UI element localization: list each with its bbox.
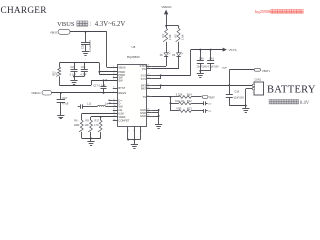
wire VBUS to IC xyxy=(70,31,118,68)
svg-text:21: 21 xyxy=(147,112,149,114)
ground IC right xyxy=(155,125,162,129)
ground resistors xyxy=(87,142,94,146)
net label D- xyxy=(109,103,113,105)
svg-text:L11: L11 xyxy=(87,101,92,105)
svg-text:REGN: REGN xyxy=(118,91,126,95)
svg-text:22: 22 xyxy=(147,109,149,111)
wire PMID rail xyxy=(59,63,117,75)
svg-text:1.0K: 1.0K xyxy=(168,34,172,40)
svg-text:19: 19 xyxy=(147,78,149,80)
svg-text:TBAT: TBAT xyxy=(209,96,216,99)
svg-text:15: 15 xyxy=(147,95,149,97)
svg-text:U8: U8 xyxy=(132,45,136,49)
wire BAT join xyxy=(151,84,161,88)
net label D+ xyxy=(108,100,112,102)
note VBUS range 4.3V-6.2V xyxy=(57,21,125,28)
svg-text:4.3V~6.2V: 4.3V~6.2V xyxy=(95,21,126,28)
svg-text:C40: C40 xyxy=(199,56,204,60)
svg-text:SW: SW xyxy=(118,78,123,82)
capacitor C20 xyxy=(70,63,78,77)
svg-text:C21: C21 xyxy=(81,65,86,69)
svg-text:VBUS: VBUS xyxy=(50,31,57,35)
wire GND pins xyxy=(151,109,159,124)
svg-text::: : xyxy=(90,22,92,28)
power VSYS arrow xyxy=(223,48,237,52)
wire REGN xyxy=(52,92,118,94)
svg-text:R9: R9 xyxy=(86,119,90,123)
svg-text:PG: PG xyxy=(142,67,146,71)
capacitor C40 xyxy=(197,49,208,71)
wire TS xyxy=(151,96,171,111)
ground battery xyxy=(242,109,249,113)
title text CHARGER xyxy=(1,6,48,16)
svg-text:VBUS: VBUS xyxy=(57,21,75,28)
svg-text:10uF/16V: 10uF/16V xyxy=(233,96,244,99)
svg-text:10K-1%: 10K-1% xyxy=(175,99,185,103)
wire SYS caps join xyxy=(199,70,210,73)
svg-text:C31: C31 xyxy=(208,111,211,113)
svg-text:10: 10 xyxy=(113,105,115,107)
svg-text:10uF/16V: 10uF/16V xyxy=(197,65,208,68)
wire cap join xyxy=(73,76,84,78)
svg-text:C19: C19 xyxy=(80,44,84,49)
resistor R4 xyxy=(161,28,172,42)
capacitor C15 xyxy=(67,104,83,109)
svg-text:4: 4 xyxy=(113,76,114,78)
svg-text:R13: R13 xyxy=(187,107,192,111)
svg-text:D5: D5 xyxy=(160,55,164,57)
capacitor C31 xyxy=(204,109,212,113)
svg-text:9: 9 xyxy=(113,102,114,104)
connector CON1 xyxy=(252,79,263,95)
svg-text:C41: C41 xyxy=(209,56,214,60)
svg-text:CHARGER: CHARGER xyxy=(1,6,48,16)
svg-text:SW: SW xyxy=(118,105,123,109)
capacitor C19 xyxy=(80,32,92,52)
svg-text:1: 1 xyxy=(113,66,114,68)
svg-text:R12: R12 xyxy=(187,99,192,103)
svg-text:5.23K: 5.23K xyxy=(176,93,183,97)
svg-text:CONFET: CONFET xyxy=(118,119,129,123)
power VREGN xyxy=(162,5,172,26)
wire PMID loop bottom xyxy=(59,79,117,85)
svg-text:2R2: 2R2 xyxy=(52,71,56,76)
svg-text:3: 3 xyxy=(113,73,114,75)
svg-text:BATTERY: BATTERY xyxy=(267,84,316,95)
svg-text:5: 5 xyxy=(113,79,114,81)
wire VREF xyxy=(91,116,118,118)
svg-text:24: 24 xyxy=(147,65,149,67)
svg-text:VTR: VTR xyxy=(176,107,181,111)
port VBUS xyxy=(50,29,70,34)
svg-text:C20: C20 xyxy=(70,65,75,69)
ground SYS caps xyxy=(197,74,204,78)
capacitor C30 xyxy=(204,101,212,105)
svg-text:R6: R6 xyxy=(74,119,78,123)
svg-text:23: 23 xyxy=(147,68,149,70)
svg-text:R5: R5 xyxy=(173,34,177,38)
svg-text:R17: R17 xyxy=(95,119,100,123)
wire resistor bottoms xyxy=(82,137,101,141)
svg-text:4.7uF/25V: 4.7uF/25V xyxy=(88,40,92,52)
wire SYS join xyxy=(151,74,161,79)
wire VREGN rail xyxy=(165,25,178,28)
capacitor C17 xyxy=(93,79,106,94)
svg-text:SYS: SYS xyxy=(141,73,147,77)
ground C16 xyxy=(57,116,64,119)
svg-text:R14: R14 xyxy=(187,93,192,97)
wire STAT xyxy=(151,56,166,66)
wire CON pin2 xyxy=(246,89,255,106)
svg-text:VREF: VREF xyxy=(118,115,126,119)
wire bottom pins xyxy=(127,133,140,145)
svg-text:C17 0.1uF: C17 0.1uF xyxy=(93,84,106,88)
LED D6 xyxy=(172,42,183,57)
svg-text:SYS: SYS xyxy=(141,77,147,81)
resistor R7 xyxy=(52,63,61,85)
ground C19 xyxy=(82,52,89,56)
wire ILIM xyxy=(82,113,118,115)
svg-text:TS: TS xyxy=(143,95,147,99)
wire SYS rail xyxy=(161,50,223,76)
svg-text:VBAT1: VBAT1 xyxy=(262,69,271,73)
svg-text:20: 20 xyxy=(147,74,149,76)
resistor R17 xyxy=(94,117,102,139)
LED D5 xyxy=(160,42,171,57)
resistor R13 xyxy=(171,107,204,113)
svg-text:10K: 10K xyxy=(85,124,90,127)
svg-text:C18: C18 xyxy=(234,90,239,94)
svg-text:GND: GND xyxy=(140,114,146,118)
wire C18 to gnd xyxy=(229,105,246,109)
svg-text:17: 17 xyxy=(147,84,149,86)
svg-text:12: 12 xyxy=(113,112,115,114)
port VREGN xyxy=(31,90,51,95)
port TBAT xyxy=(202,96,215,100)
svg-text:4.7uF/16V: 4.7uF/16V xyxy=(208,65,220,68)
svg-text:VBUS: VBUS xyxy=(118,65,126,69)
svg-text:100R: 100R xyxy=(74,124,80,127)
svg-text:VSYS: VSYS xyxy=(229,48,237,52)
resistor R12 xyxy=(171,99,204,105)
IC U8 BQ25890 xyxy=(113,45,151,132)
resistor R9 xyxy=(85,117,93,139)
svg-text:18: 18 xyxy=(147,115,149,117)
red note bq25886 charging circuit xyxy=(255,9,303,14)
port VBAT xyxy=(254,68,270,73)
wire PG xyxy=(151,56,178,69)
svg-text:11: 11 xyxy=(113,109,115,111)
svg-text:CON1: CON1 xyxy=(254,79,261,82)
svg-text:bq25886: bq25886 xyxy=(255,9,272,14)
title text BATTERY xyxy=(267,84,316,95)
svg-text:R4: R4 xyxy=(161,34,165,38)
svg-text:D6: D6 xyxy=(172,55,176,57)
resistor R5 xyxy=(173,28,184,42)
svg-text:VREGN: VREGN xyxy=(162,5,172,9)
svg-text:BAT: BAT xyxy=(141,86,146,90)
svg-text:VREGN: VREGN xyxy=(31,91,40,95)
svg-text:BTST: BTST xyxy=(118,86,125,90)
svg-text:13: 13 xyxy=(113,115,115,117)
svg-text:C16: C16 xyxy=(62,96,67,100)
inductor L11 xyxy=(82,101,117,106)
svg-text:1.0K: 1.0K xyxy=(181,34,185,40)
svg-text:7: 7 xyxy=(113,91,114,93)
svg-text:CE: CE xyxy=(118,108,122,112)
svg-text:4.7K: 4.7K xyxy=(94,124,99,127)
wire VBAT riser xyxy=(222,66,255,85)
svg-text:8.4V: 8.4V xyxy=(300,101,310,106)
ground PMID caps xyxy=(70,77,77,85)
resistor R14 xyxy=(171,93,202,99)
wire BAT rail xyxy=(161,84,254,86)
svg-text:C30: C30 xyxy=(208,103,211,105)
svg-text:2: 2 xyxy=(113,70,114,72)
svg-text:14: 14 xyxy=(113,119,115,121)
capacitor C21 xyxy=(80,63,88,77)
ground bottom xyxy=(131,145,138,149)
resistor R6 xyxy=(74,114,84,139)
capacitor C18 xyxy=(226,85,245,105)
capacitor C16 xyxy=(57,93,69,115)
note set charge voltage 8.4V xyxy=(269,99,310,106)
capacitor C41 xyxy=(207,49,219,71)
svg-text:16: 16 xyxy=(147,87,149,89)
svg-text:6: 6 xyxy=(113,87,114,89)
svg-text:VBAT: VBAT xyxy=(222,66,228,69)
svg-text:BQ25890: BQ25890 xyxy=(127,55,140,59)
svg-text:1: 1 xyxy=(67,104,69,106)
svg-text:8: 8 xyxy=(113,99,114,101)
